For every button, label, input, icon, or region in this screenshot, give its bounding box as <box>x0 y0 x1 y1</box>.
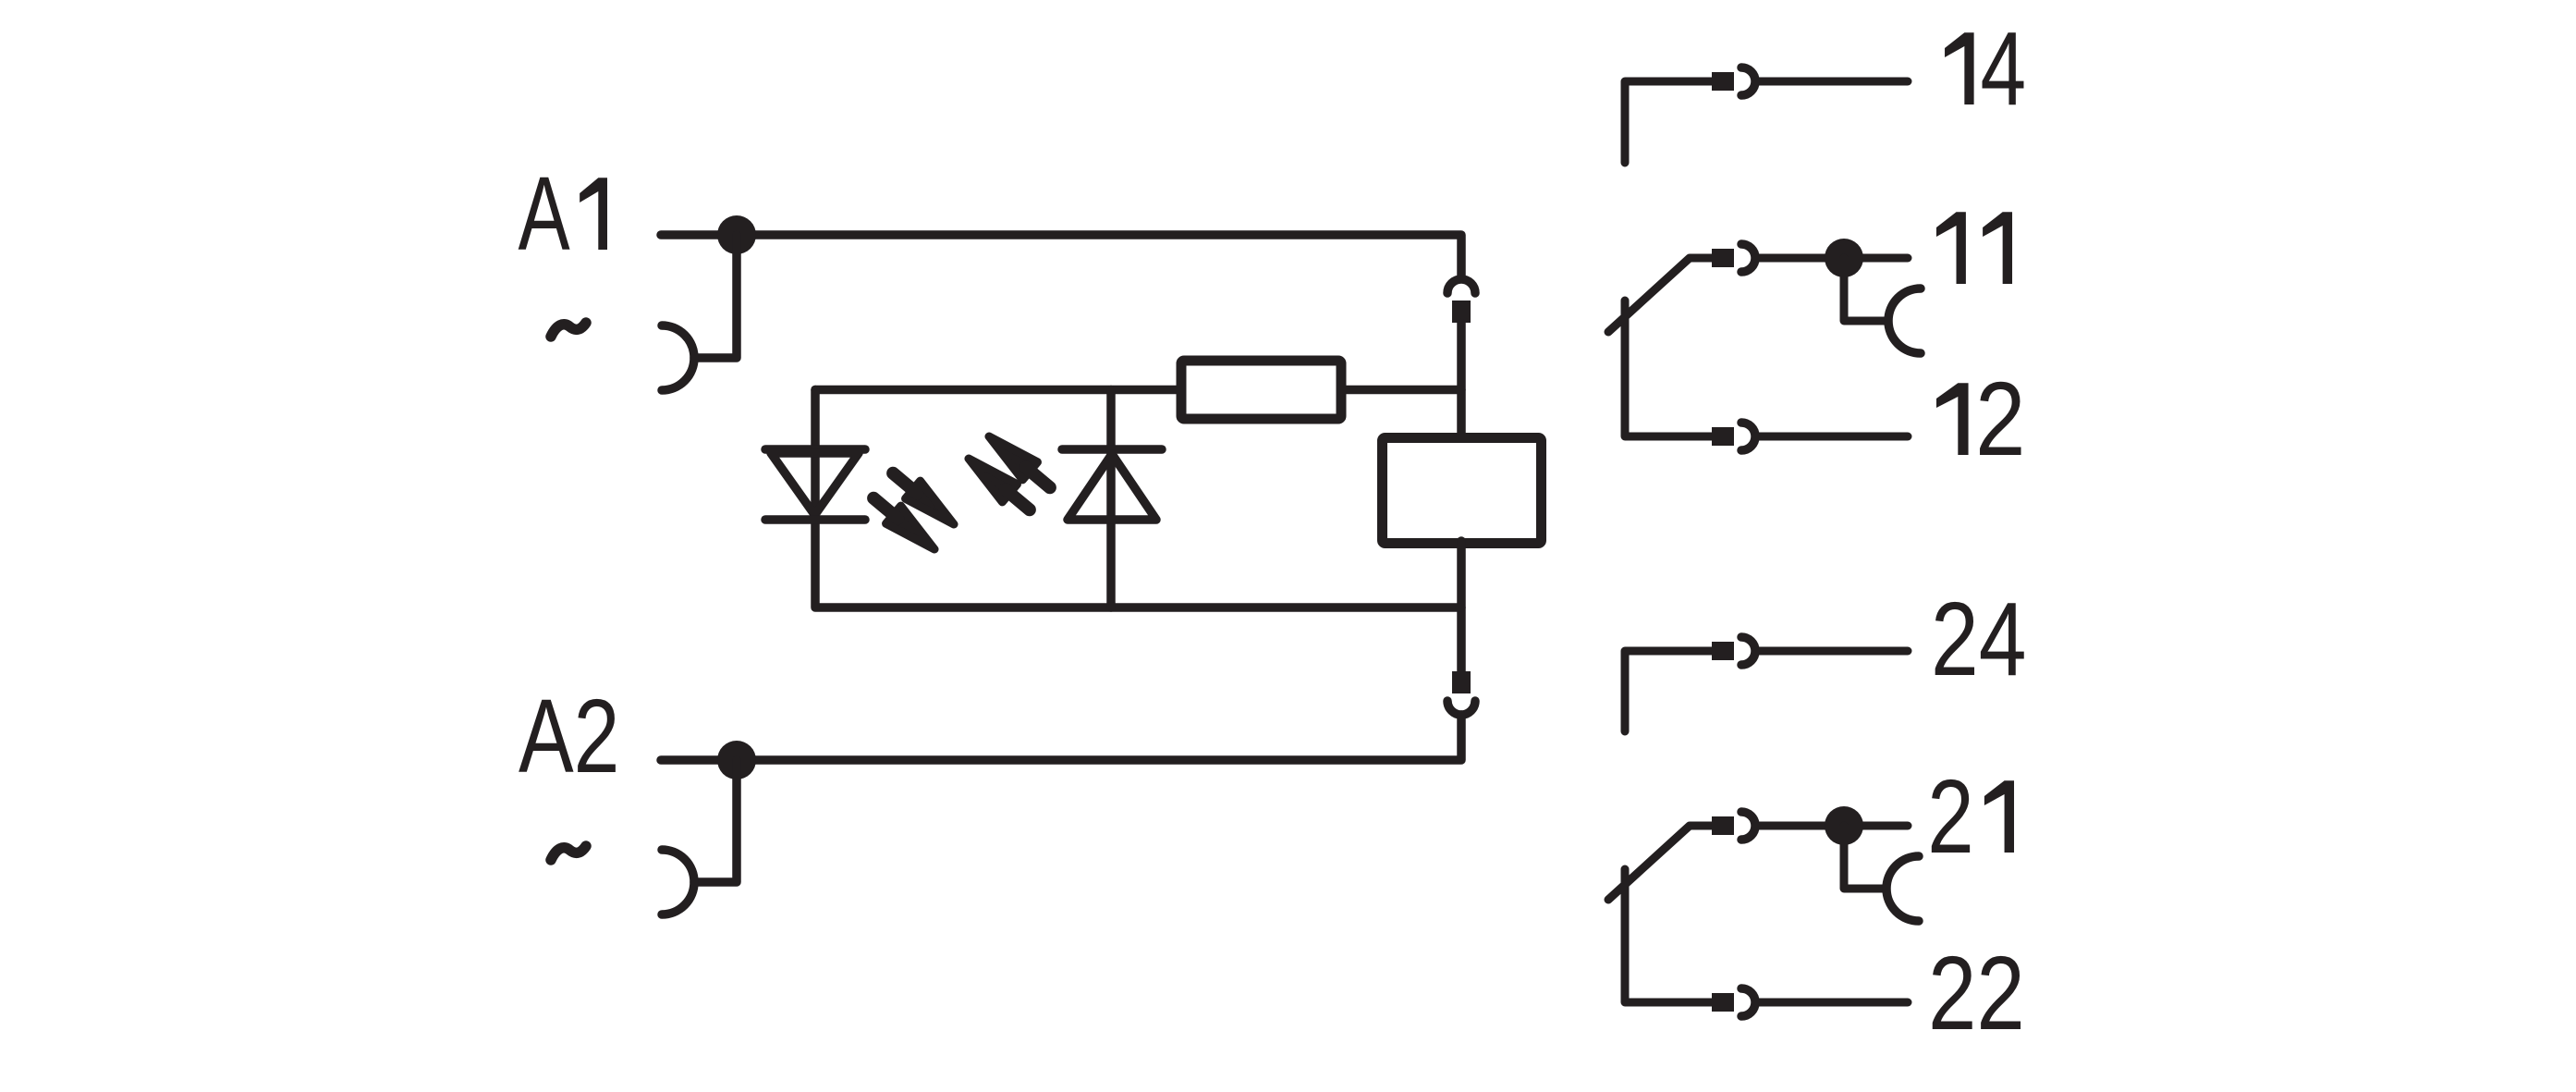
wire NC contact 12 <box>1625 301 1712 436</box>
svg-text:4: 4 <box>1981 10 2027 128</box>
resistor R <box>1181 361 1341 419</box>
wire NO contact 24 <box>1625 651 1712 731</box>
wire 11 junction to test socket <box>1844 258 1888 321</box>
optocoupler box top edge (left part) <box>815 386 1181 395</box>
junction A2 <box>717 741 756 779</box>
label 12 <box>1936 361 2025 477</box>
wire NC contact 22 <box>1625 869 1712 1002</box>
label A1 <box>519 156 607 273</box>
movable contact arm 21 <box>1608 826 1712 900</box>
relay coil K1 <box>1383 438 1542 544</box>
wire plug to terminal 14 <box>1755 78 1908 86</box>
movable contact arm 11 <box>1608 258 1712 332</box>
svg-text:2: 2 <box>1975 361 2025 477</box>
plug contact 14 <box>1712 67 1755 95</box>
LED emission arrows <box>866 427 1057 558</box>
svg-text:A2: A2 <box>519 678 619 794</box>
wire A1 junction down to test socket <box>694 235 737 358</box>
wire A2 junction down to test socket <box>694 760 737 882</box>
label 14 <box>1945 10 2026 128</box>
LED D1 (status LED, cathode down) <box>765 445 865 454</box>
svg-text:24: 24 <box>1931 580 2026 697</box>
wire bottom plug to A2 line <box>661 715 1461 760</box>
junction A1 <box>717 215 756 254</box>
wire plug to coil top <box>1457 323 1466 437</box>
svg-text:2: 2 <box>1927 757 1973 875</box>
diode D2 (antiparallel, cathode up) <box>1062 445 1162 454</box>
plug connection top (arc on A1 side, pin square on relay side) <box>1447 279 1475 323</box>
label 11 <box>1936 212 2012 284</box>
test socket 11 <box>1888 288 1921 353</box>
junction 11 <box>1825 239 1863 277</box>
wire 21 junction to test socket <box>1844 826 1886 889</box>
plug contact 21 <box>1712 812 1755 840</box>
plug contact 22 <box>1712 988 1755 1016</box>
optocoupler box left edge and bottom edge <box>815 390 1461 608</box>
wire coil bottom down to bottom plug <box>1457 541 1466 671</box>
node A1: wire from terminal A1 to top-right corner, down to plug <box>661 235 1461 276</box>
terminal clamp A2 (socket arc) <box>662 850 694 914</box>
wire NO contact 14 <box>1625 81 1712 163</box>
AC symbol at A1 <box>551 323 586 337</box>
wire plug to terminal 21 <box>1755 822 1908 830</box>
wire plug to terminal 24 <box>1755 647 1908 656</box>
plug contact 11 <box>1712 244 1755 272</box>
optocoupler middle branch <box>1106 390 1116 608</box>
test socket 21 <box>1886 856 1919 921</box>
wire plug to terminal 12 <box>1755 433 1908 441</box>
plug contact 12 <box>1712 423 1755 450</box>
wire plug to terminal 22 <box>1755 999 1908 1007</box>
AC symbol at A2 <box>551 846 586 860</box>
svg-text:A: A <box>519 156 571 273</box>
wire plug to terminal 11 <box>1755 254 1908 263</box>
svg-text:22: 22 <box>1928 936 2025 1052</box>
label 21 <box>1927 757 2014 875</box>
wire resistor to main vertical <box>1341 386 1461 395</box>
plug contact 24 <box>1712 637 1755 665</box>
plug connection bottom (pin square on relay side, arc on A2 side) <box>1447 671 1475 715</box>
terminal clamp A1 (socket arc) <box>662 325 694 390</box>
junction 21 <box>1825 806 1863 845</box>
